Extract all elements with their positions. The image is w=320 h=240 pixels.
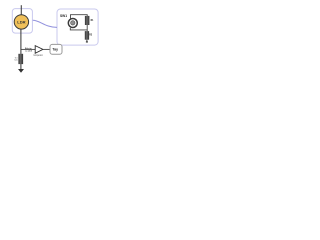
wire LDR bottom to resistor <box>20 29 22 55</box>
resistor (pull-down) <box>18 54 23 64</box>
container box left (LDR block) <box>12 9 32 33</box>
Tay box <box>50 44 62 54</box>
svg-text:Tay: Tay <box>52 48 58 52</box>
svg-text:so sánh: so sánh <box>25 50 32 52</box>
wire buzzer bottom to R1/R2 junction <box>70 28 87 30</box>
wire buzzer top to R1 <box>71 15 88 19</box>
svg-text:SW1: SW1 <box>60 13 68 18</box>
ground <box>18 69 24 73</box>
container box right (SW1 block) <box>57 9 98 45</box>
LDR circle <box>14 15 28 29</box>
wire resistor to ground <box>20 64 22 70</box>
background <box>0 0 120 90</box>
wire LDR top pin <box>20 5 22 15</box>
buzzer SW1 outer ring <box>68 19 77 28</box>
wire blue between boxes <box>33 20 57 27</box>
resistor R2 <box>85 31 89 40</box>
buzzer SW1 inner disk <box>71 21 75 25</box>
wire R2 bottom stub <box>86 40 88 43</box>
wire R1 bottom to R2 top <box>86 25 88 32</box>
wire comparator output to Tay box <box>43 48 50 50</box>
svg-text:R2: R2 <box>89 33 92 37</box>
wire branch to comparator <box>21 48 35 50</box>
svg-text:R1: R1 <box>91 18 94 22</box>
svg-text:Comparator: Comparator <box>33 54 43 57</box>
svg-text:LDR: LDR <box>17 19 25 24</box>
resistor R1 <box>85 16 90 25</box>
op-amp comparator triangle <box>35 46 43 54</box>
